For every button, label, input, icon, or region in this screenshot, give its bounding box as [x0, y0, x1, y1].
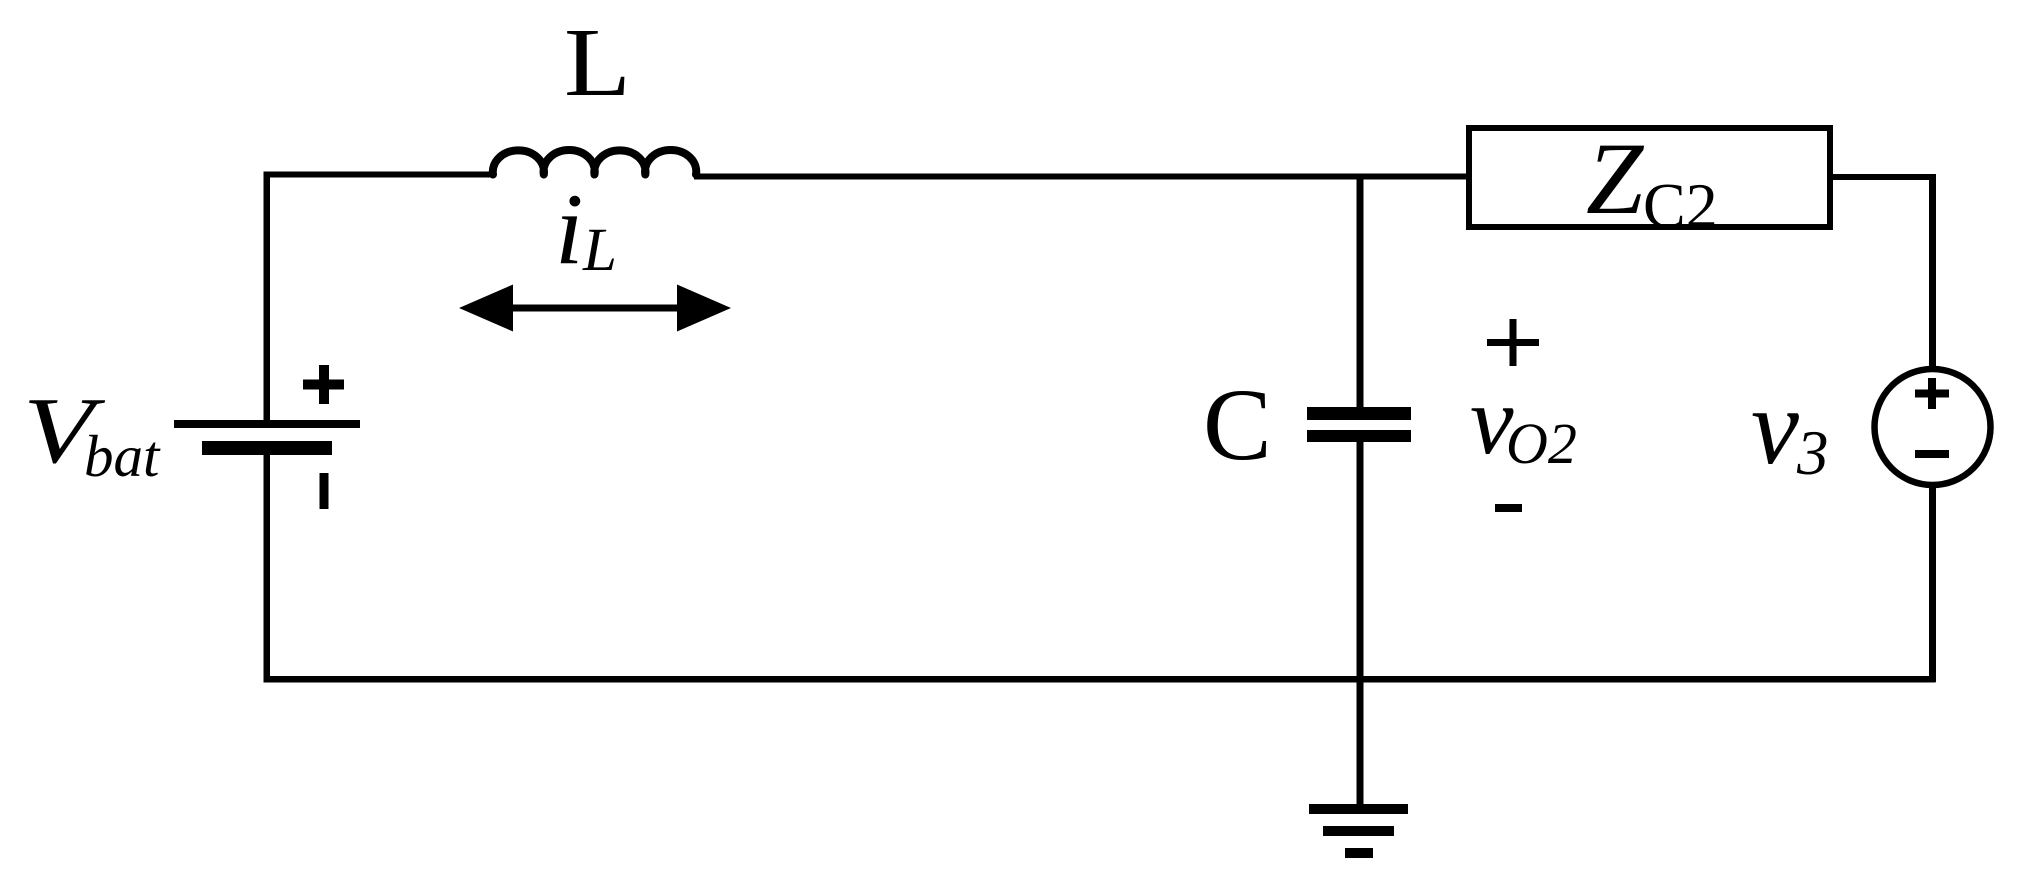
svg-text:3: 3	[1796, 418, 1829, 488]
svg-text:C: C	[1203, 368, 1272, 482]
battery minus	[320, 473, 329, 509]
svg-text:bat: bat	[84, 423, 161, 489]
svg-text:L: L	[582, 217, 617, 284]
capacitor C top plate	[1307, 407, 1411, 420]
v3 plus	[1915, 390, 1949, 398]
capacitor C bottom plate	[1307, 430, 1411, 442]
wire top mid horizontal	[694, 174, 1469, 180]
svg-text:C2: C2	[1643, 170, 1718, 241]
vO2 plus	[1487, 339, 1539, 346]
v3 minus	[1915, 450, 1949, 458]
impedance box ZC2	[1469, 128, 1830, 227]
arrow iL	[459, 285, 731, 332]
wire bottom horizontal	[264, 676, 1936, 683]
capacitor wire lower	[1357, 442, 1364, 806]
wire battery to bottom	[264, 455, 271, 680]
svg-text:i: i	[555, 173, 583, 286]
battery plus	[303, 380, 344, 390]
svg-text:O2: O2	[1506, 411, 1577, 476]
battery Vbat bottom plate	[202, 441, 332, 455]
vO2 minus	[1495, 504, 1522, 512]
svg-text:L: L	[564, 9, 631, 116]
capacitor wire upper	[1357, 176, 1364, 408]
wire right vertical lower	[1929, 485, 1936, 682]
wire box to right corner	[1830, 174, 1935, 180]
wire top-left horizontal	[264, 172, 494, 178]
ground	[1309, 804, 1408, 814]
source v3 circle	[1875, 369, 1991, 485]
inductor L	[493, 150, 696, 174]
battery Vbat top plate	[174, 420, 360, 428]
wire right vertical upper	[1929, 174, 1936, 370]
svg-text:Z: Z	[1586, 122, 1645, 236]
svg-text:v: v	[1751, 368, 1799, 487]
wire top-left vertical	[264, 172, 271, 421]
